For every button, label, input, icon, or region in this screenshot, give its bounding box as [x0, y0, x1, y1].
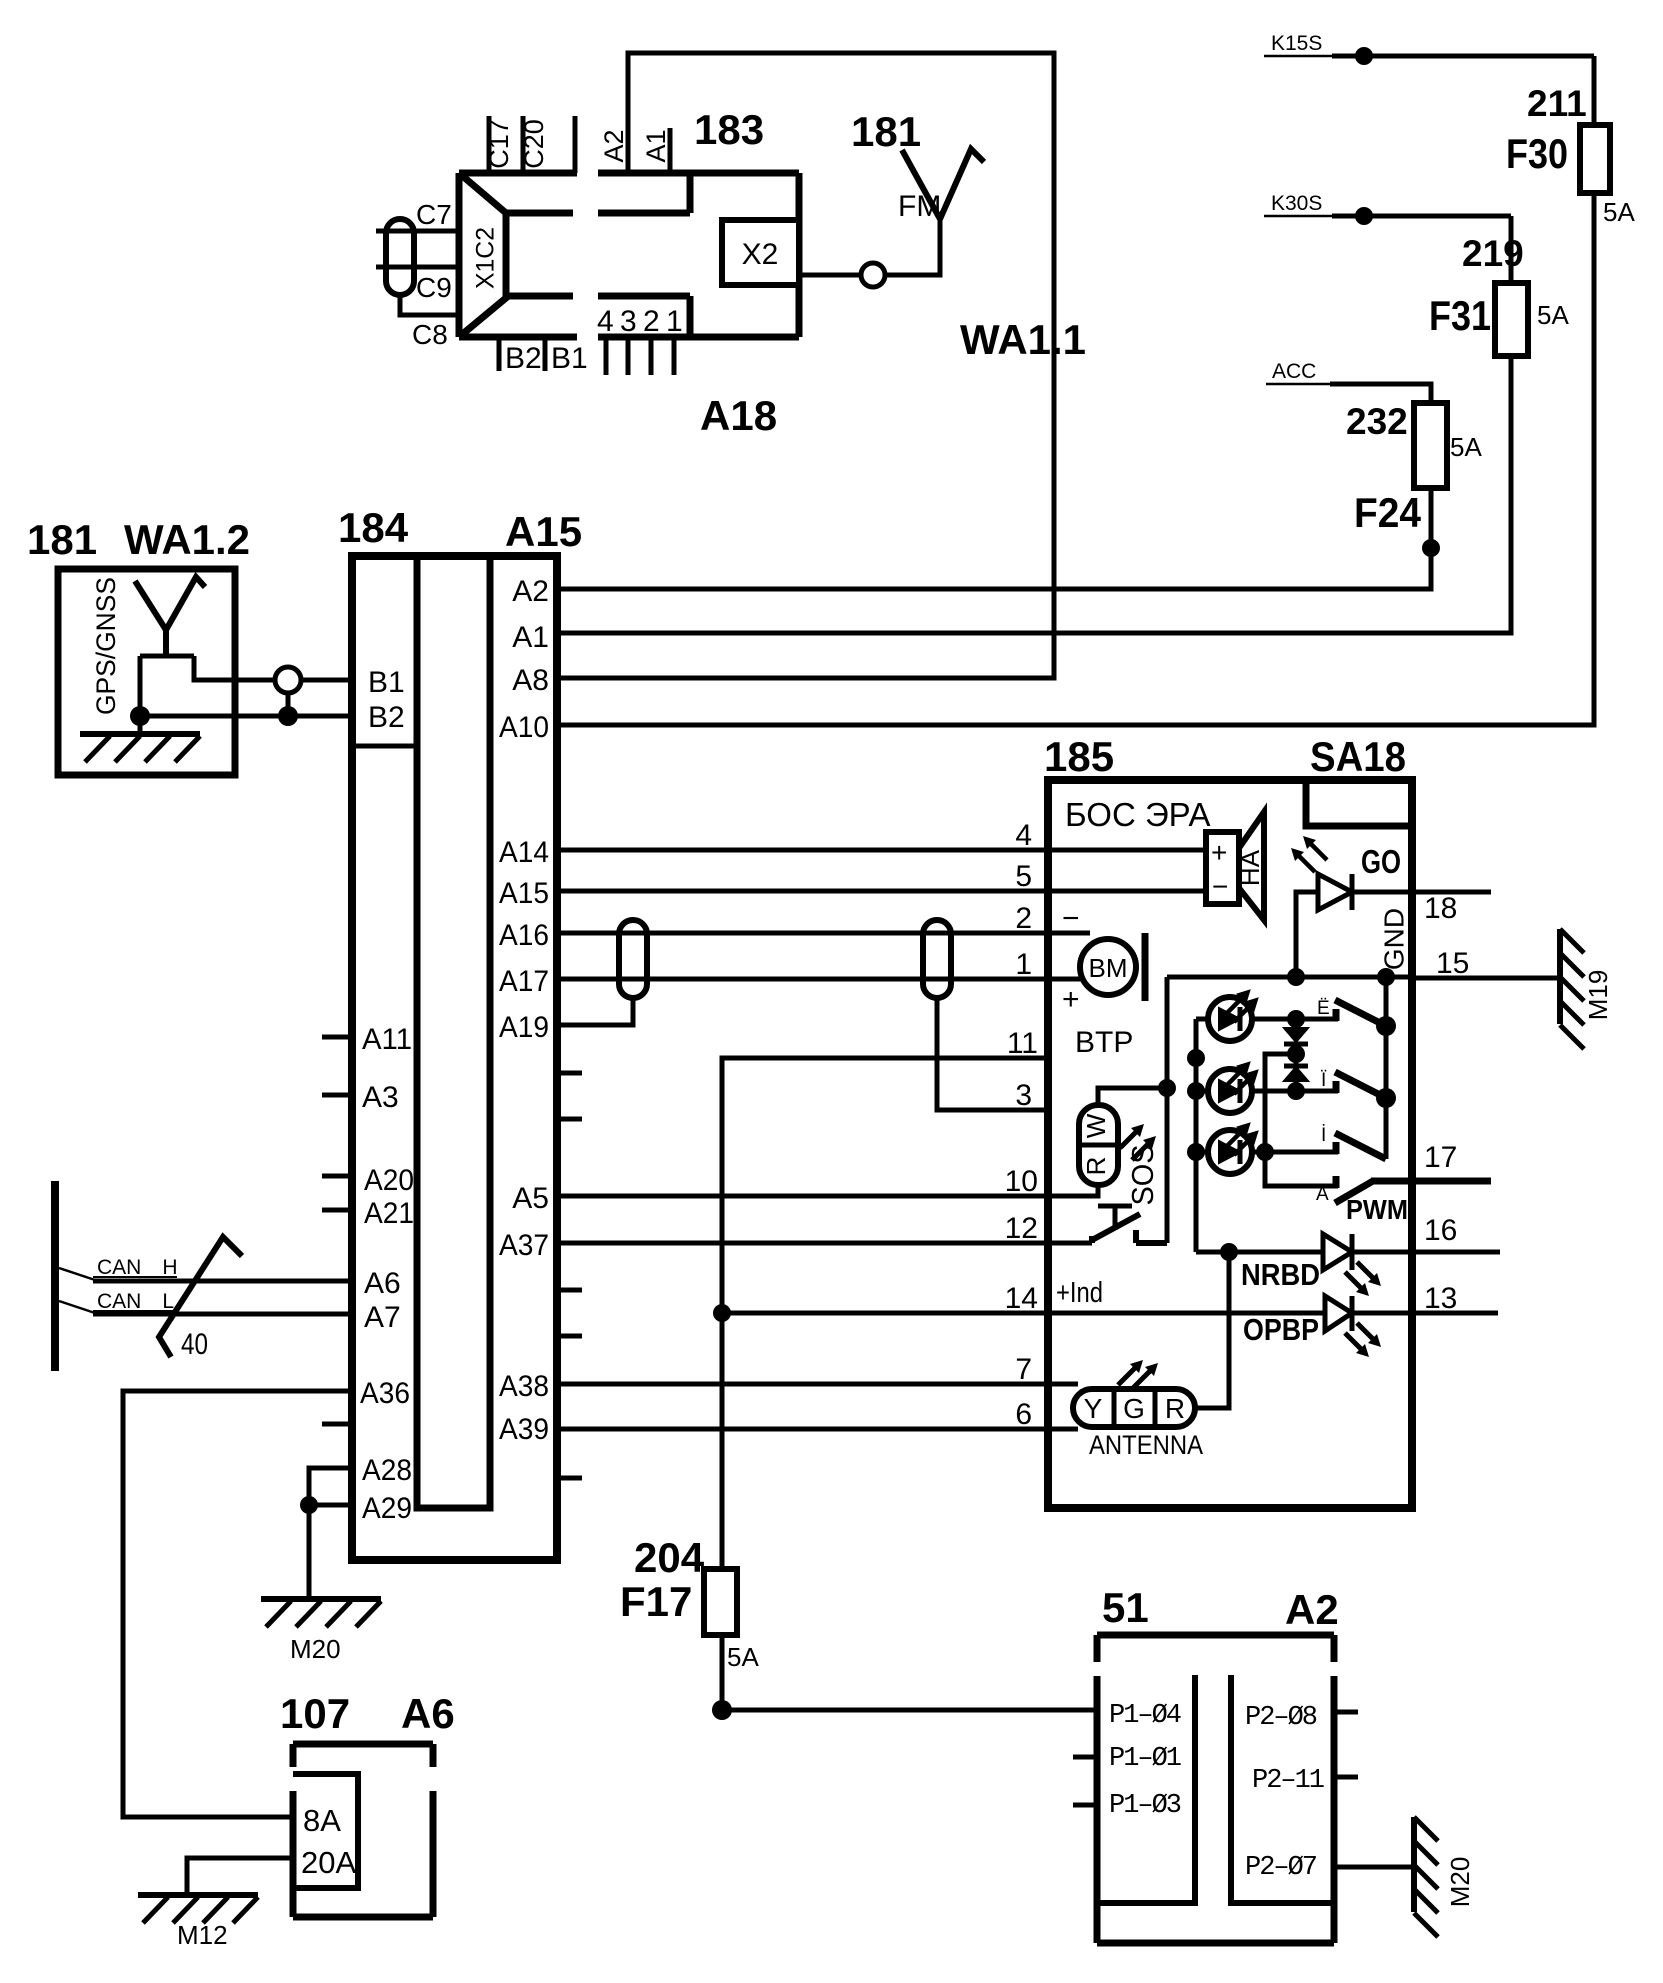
GND left drop to SOS switch: [1165, 977, 1170, 1243]
svg-text:GND: GND: [1378, 908, 1409, 970]
wire to internal ground: [138, 656, 143, 716]
CAN bus bar: [51, 1181, 59, 1371]
wire X2 to antenna connector: [799, 273, 861, 278]
wire F24 to A2: [557, 488, 1431, 589]
svg-text:ANTENNA: ANTENNA: [1089, 1430, 1203, 1460]
block 51 outline: [1097, 1635, 1334, 1943]
svg-text:A18: A18: [700, 392, 777, 439]
svg-text:40: 40: [181, 1328, 208, 1361]
svg-text:A5: A5: [512, 1182, 549, 1215]
indicator LED circle 1: [1196, 990, 1338, 1041]
wire C8: [400, 293, 459, 315]
svg-text:İ: İ: [1321, 1125, 1326, 1146]
svg-text:BTP: BTP: [1075, 1026, 1133, 1059]
svg-text:A2: A2: [512, 575, 549, 608]
wire P2-07 to M20: [1334, 1865, 1414, 1870]
svg-text:A37: A37: [499, 1229, 549, 1262]
wire A15 to pin 5 (speaker): [557, 889, 1206, 894]
wire A17 to pin 1 (mic +): [557, 977, 1083, 982]
wires A28/A29 to ground: [309, 1468, 352, 1505]
svg-text:K30S: K30S: [1271, 192, 1322, 215]
fuse F24 body: [1414, 403, 1447, 488]
junction bus row3: [1187, 1143, 1205, 1161]
net K15S wire: [1264, 55, 1332, 58]
svg-text:A15: A15: [499, 877, 549, 910]
svg-text:185: 185: [1044, 733, 1114, 780]
svg-text:M19: M19: [1583, 970, 1613, 1021]
fuse F30 body: [1580, 125, 1610, 193]
svg-text:3: 3: [1015, 1079, 1032, 1112]
svg-text:2: 2: [1015, 902, 1032, 935]
junction below F24: [1422, 539, 1440, 557]
pin A11 stub: [322, 1035, 352, 1040]
svg-text:184: 184: [338, 504, 409, 551]
junction switch E: [1376, 1016, 1396, 1036]
ground stem: [138, 716, 143, 734]
pin A1 stub: [668, 128, 673, 173]
LED bus left vertical: [1194, 1019, 1199, 1252]
svg-text:НА: НА: [1235, 849, 1265, 886]
block SA18 outer box: [1048, 780, 1412, 1508]
svg-text:GPS/GNSS: GPS/GNSS: [91, 577, 121, 715]
svg-text:+Ind: +Ind: [1056, 1277, 1103, 1309]
junction NRBD: [1220, 1243, 1238, 1261]
top-right tab partition: [1306, 780, 1412, 826]
wire shield 2 to pin 3: [937, 998, 1048, 1110]
svg-text:ACC: ACC: [1272, 360, 1316, 383]
svg-text:A6: A6: [401, 1690, 455, 1737]
svg-text:Ä: Ä: [1316, 1184, 1329, 1205]
junction stack middle: [1287, 1045, 1305, 1063]
svg-text:C17: C17: [484, 119, 514, 169]
wire F30 to A10: [557, 193, 1594, 725]
svg-text:+: +: [1211, 837, 1227, 868]
microphone membrane bar: [1142, 933, 1149, 1001]
svg-text:A1: A1: [512, 621, 549, 654]
svg-text:B1: B1: [551, 342, 588, 375]
svg-text:A29: A29: [362, 1492, 412, 1525]
svg-text:P1–Ø3: P1–Ø3: [1109, 1791, 1181, 1821]
net K30S wire: [1264, 215, 1332, 218]
svg-text:P2–Ø7: P2–Ø7: [1245, 1853, 1317, 1883]
svg-text:181: 181: [27, 516, 97, 563]
wire A16 to pin 2 (mic -): [557, 931, 1090, 936]
svg-text:4: 4: [597, 305, 614, 338]
GO LED wire pin 18: [1296, 892, 1491, 977]
fuse F17 body: [704, 1569, 737, 1635]
svg-text:WA1.1: WA1.1: [960, 316, 1086, 363]
wire B2: [140, 714, 352, 719]
svg-text:1: 1: [1015, 948, 1032, 981]
wire A39 to pin 6: [557, 1427, 1078, 1432]
svg-text:F17: F17: [620, 1578, 692, 1625]
junction row3 / branch: [1256, 1143, 1274, 1161]
branch stack middle to switch A: [1265, 1054, 1338, 1186]
wire pin 11 BTP: [722, 1058, 1048, 1569]
svg-text:A36: A36: [360, 1377, 410, 1410]
svg-text:51: 51: [1102, 1584, 1149, 1631]
wire antenna to B1: [140, 656, 352, 680]
svg-text:20A: 20A: [301, 1845, 356, 1880]
ground M19 bar: [1557, 929, 1563, 1024]
junction at ground: [130, 706, 150, 726]
svg-text:G: G: [1123, 1393, 1145, 1424]
svg-text:A14: A14: [499, 836, 549, 869]
junction switch I2: [1376, 1088, 1396, 1108]
svg-text:5A: 5A: [727, 1642, 759, 1672]
wire A38 to pin 7: [557, 1382, 1078, 1387]
svg-text:183: 183: [694, 106, 764, 153]
pin B2 stub: [497, 337, 502, 371]
svg-text:A7: A7: [364, 1301, 401, 1334]
svg-text:P2–11: P2–11: [1252, 1766, 1324, 1796]
harness connector capsule at C7/C9: [386, 219, 414, 295]
junction +Ind branch: [713, 1304, 731, 1322]
svg-text:5A: 5A: [1537, 300, 1569, 330]
switch E (row1): [1335, 1000, 1386, 1026]
svg-text:A2: A2: [1285, 1586, 1339, 1633]
svg-text:−: −: [1212, 871, 1228, 902]
shield circle on B1 wire: [275, 667, 301, 693]
svg-text:A6: A6: [364, 1267, 401, 1300]
wire 20A to M12: [187, 1858, 293, 1895]
svg-text:F24: F24: [1354, 489, 1422, 536]
speaker HA body: [1206, 832, 1239, 904]
svg-text:P2–Ø8: P2–Ø8: [1245, 1703, 1317, 1733]
unlabeled top pin: [573, 116, 578, 173]
svg-text:БОС ЭРА: БОС ЭРА: [1065, 796, 1211, 833]
switch I3 (row3): [1335, 1133, 1386, 1159]
pin A21 stub: [322, 1208, 352, 1213]
svg-text:FM: FM: [898, 190, 941, 223]
antenna indicator YGR capsule: [1073, 1389, 1195, 1427]
wire F17 down: [720, 1635, 725, 1710]
svg-text:R: R: [1081, 1157, 1111, 1176]
SOS lamp R/W capsule: [1079, 1105, 1118, 1185]
svg-text:C20: C20: [519, 119, 549, 169]
svg-text:W: W: [1081, 1113, 1111, 1138]
svg-text:A20: A20: [364, 1164, 414, 1197]
svg-text:5: 5: [1015, 860, 1032, 893]
svg-text:C9: C9: [416, 272, 452, 303]
svg-text:10: 10: [1005, 1165, 1038, 1198]
svg-text:F30: F30: [1506, 130, 1568, 177]
ground M19 hatches: [1560, 929, 1584, 1049]
GO LED arrows: [1297, 842, 1327, 872]
svg-text:16: 16: [1424, 1214, 1457, 1247]
svg-text:17: 17: [1424, 1141, 1457, 1174]
ground bar: [80, 731, 200, 737]
svg-text:BM: BM: [1089, 953, 1128, 983]
svg-text:C8: C8: [412, 319, 448, 350]
pin P2-08 stub: [1334, 1710, 1358, 1715]
wire to P1-04: [722, 1708, 1097, 1713]
wire: [557, 53, 1054, 678]
junction GO/GND: [1287, 968, 1305, 986]
svg-text:8A: 8A: [303, 1803, 341, 1838]
pin P1-03 stub: [1073, 1803, 1097, 1808]
svg-text:P1–Ø1: P1–Ø1: [1109, 1744, 1181, 1774]
antenna indicator arrows: [1118, 1366, 1152, 1388]
junction on B2 wire: [278, 706, 298, 726]
wire CAN H to A6: [59, 1268, 95, 1280]
inner mating lines of A18: [506, 173, 690, 337]
pins 4 3 2 1 stubs: [606, 337, 674, 375]
switch A (PWM): [1335, 1176, 1491, 1203]
svg-text:A38: A38: [499, 1370, 549, 1403]
svg-text:13: 13: [1424, 1282, 1457, 1315]
OPBP wire pin 13 stub: [1412, 1311, 1498, 1316]
svg-text:+: +: [1062, 983, 1080, 1016]
svg-text:A17: A17: [499, 965, 549, 998]
ground M20 right bar: [1411, 1817, 1417, 1912]
link circle to B2: [286, 693, 291, 716]
indicator LED circle 2: [1196, 1062, 1338, 1113]
ground M12 hatches: [143, 1897, 258, 1923]
svg-text:5A: 5A: [1603, 197, 1635, 227]
svg-text:K15S: K15S: [1271, 32, 1322, 55]
svg-text:P1–Ø4: P1–Ø4: [1109, 1701, 1181, 1731]
wire A37 to pin 12 (SOS switch): [557, 1241, 1092, 1246]
ground hatches: [85, 736, 200, 762]
svg-text:Ï: Ï: [1321, 1070, 1327, 1091]
junction A29: [300, 1496, 318, 1514]
svg-text:2: 2: [643, 305, 660, 338]
svg-text:−: −: [1062, 902, 1080, 935]
unlabeled right stubs: [557, 1073, 582, 1478]
svg-text:7: 7: [1015, 1353, 1032, 1386]
speaker horn: [1239, 812, 1264, 920]
twisted-pair slash mark: [159, 1237, 242, 1357]
ground M12 bar: [138, 1892, 258, 1898]
OPBP LED (on +Ind line, pin 13): [1325, 1296, 1352, 1331]
svg-text:A8: A8: [512, 664, 549, 697]
svg-text:18: 18: [1424, 892, 1457, 925]
block A15 outer box: [352, 556, 557, 1560]
svg-text:F31: F31: [1429, 292, 1491, 339]
junction bus row2: [1187, 1082, 1205, 1100]
wire C9: [376, 265, 459, 270]
junction BTP/bus: [1187, 1049, 1205, 1067]
wire NRBD node down to antenna indicator: [1195, 1252, 1229, 1408]
svg-text:Y: Y: [1084, 1393, 1103, 1424]
wire K15S to fuse F30: [1592, 56, 1597, 125]
svg-text:WA1.2: WA1.2: [124, 516, 250, 563]
pin C17: [487, 116, 492, 173]
ground M20 hatches: [266, 1601, 381, 1627]
wire +Ind pin 14 / OPBP pin 13: [722, 1311, 1412, 1316]
antenna connector circle: [861, 263, 885, 287]
svg-text:14: 14: [1005, 1282, 1038, 1315]
svg-text:GO: GO: [1361, 843, 1401, 880]
NRBD LED: [1323, 1234, 1352, 1270]
wire A5 to pin 10 (SOS lamp): [557, 1185, 1098, 1196]
twisted pair marker 1: [619, 920, 647, 998]
svg-text:11: 11: [1007, 1027, 1038, 1060]
svg-text:B2: B2: [505, 342, 542, 375]
wire F31 to A1: [557, 356, 1511, 633]
svg-text:M20: M20: [290, 1634, 341, 1664]
switch I2 (row2): [1335, 1072, 1386, 1098]
svg-text:A2: A2: [599, 129, 629, 162]
wire A14 to pin 4 (speaker): [557, 848, 1206, 853]
GPS antenna symbol: [135, 577, 205, 656]
svg-text:A10: A10: [499, 711, 549, 744]
microphone BM: [1080, 939, 1136, 995]
junction stack top: [1287, 1010, 1305, 1028]
svg-text:6: 6: [1015, 1398, 1032, 1431]
svg-text:B2: B2: [368, 701, 405, 734]
svg-text:OPBP: OPBP: [1243, 1312, 1319, 1347]
svg-text:B1: B1: [368, 666, 405, 699]
pin A3 stub: [322, 1093, 352, 1098]
svg-text:A39: A39: [499, 1413, 549, 1446]
pin P2-11 stub: [1334, 1775, 1358, 1780]
connector trapezoid X1C2: [459, 173, 506, 337]
junction on K15S: [1355, 47, 1373, 65]
protection diode pair: [1284, 1019, 1308, 1091]
X2 box: [722, 220, 799, 285]
svg-text:211: 211: [1527, 83, 1587, 124]
wire K30S to fuse F31: [1509, 216, 1514, 283]
svg-text:A21: A21: [364, 1197, 414, 1230]
svg-text:SA18: SA18: [1310, 733, 1406, 780]
pin A20 stub: [322, 1174, 352, 1179]
svg-text:R: R: [1165, 1393, 1185, 1424]
net ACC wire: [1266, 383, 1330, 386]
unlabeled left stub: [322, 1422, 352, 1427]
svg-text:Ё: Ё: [1317, 998, 1330, 1019]
svg-text:12: 12: [1005, 1212, 1038, 1245]
junction SOS lamp branch: [1158, 1079, 1176, 1097]
svg-text:CAN H: CAN H: [97, 1256, 178, 1279]
NRBD LED arrows: [1345, 1262, 1375, 1290]
svg-text:3: 3: [620, 305, 637, 338]
svg-text:232: 232: [1346, 401, 1408, 442]
wire SOS lamp top: [1098, 1088, 1167, 1105]
pin B1 stub: [543, 337, 548, 371]
wire C7: [376, 229, 459, 234]
wire CAN L to A7: [59, 1301, 95, 1313]
svg-text:PWM: PWM: [1346, 1194, 1408, 1225]
SOS lamp arrows: [1120, 1130, 1150, 1160]
svg-text:A11: A11: [362, 1023, 412, 1056]
svg-text:107: 107: [280, 1690, 350, 1737]
svg-text:SOS: SOS: [1125, 1145, 1160, 1206]
GND switch bus: [1384, 977, 1389, 1159]
connector box A18 outline: [459, 173, 799, 337]
block 107 outline: [293, 1744, 433, 1917]
svg-text:219: 219: [1462, 233, 1524, 274]
twisted pair marker 2: [923, 920, 951, 998]
svg-text:M12: M12: [177, 1920, 228, 1950]
WA1.2 box: [58, 569, 235, 775]
junction F17 out: [712, 1700, 732, 1720]
svg-text:A3: A3: [362, 1081, 399, 1114]
svg-text:204: 204: [634, 1534, 705, 1581]
separator B-section: [352, 744, 417, 749]
svg-text:C7: C7: [416, 199, 452, 230]
block A15 inner box: [417, 556, 490, 1508]
ground stem M20: [307, 1505, 312, 1599]
svg-text:M20: M20: [1445, 1857, 1475, 1908]
block 107 inner box: [293, 1774, 358, 1888]
GND wire pin 15: [1167, 977, 1560, 978]
NRBD wire pin 16: [1196, 1250, 1500, 1255]
svg-text:A16: A16: [499, 919, 549, 952]
svg-text:1: 1: [666, 305, 683, 338]
FM antenna symbol: [902, 149, 984, 219]
svg-text:X1C2: X1C2: [472, 227, 500, 289]
svg-text:NRBD: NRBD: [1241, 1257, 1320, 1292]
block 51 inner columns: [1097, 1675, 1334, 1903]
svg-text:A1: A1: [641, 129, 671, 162]
junction GND bus: [1377, 968, 1395, 986]
svg-text:181: 181: [851, 108, 921, 155]
pin C20: [521, 116, 526, 173]
fuse F31 body: [1495, 283, 1528, 356]
svg-text:CAN L: CAN L: [97, 1290, 174, 1313]
wire to FM antenna: [885, 219, 940, 275]
svg-text:A28: A28: [362, 1454, 412, 1487]
svg-text:A19: A19: [499, 1011, 549, 1044]
wire A19 to shield of pair 1: [557, 998, 633, 1025]
junction stack bottom: [1287, 1082, 1305, 1100]
svg-text:X2: X2: [742, 238, 779, 271]
svg-text:15: 15: [1436, 947, 1469, 980]
ground M20 bar: [261, 1596, 381, 1602]
SOS button actuator: [1098, 1206, 1132, 1230]
svg-text:4: 4: [1015, 819, 1032, 852]
ground M20 right hatches: [1414, 1817, 1438, 1937]
GO LED: [1318, 874, 1352, 910]
svg-text:5A: 5A: [1450, 432, 1482, 462]
OPBP LED arrows: [1345, 1323, 1375, 1351]
junction on K30S: [1355, 207, 1373, 225]
SOS switch contacts and lever: [1092, 1214, 1167, 1243]
wire A36 to 8A: [123, 1391, 352, 1817]
indicator LED circle 3: [1196, 1123, 1338, 1174]
svg-text:A15: A15: [505, 508, 582, 555]
pin P1-01 stub: [1073, 1755, 1097, 1760]
